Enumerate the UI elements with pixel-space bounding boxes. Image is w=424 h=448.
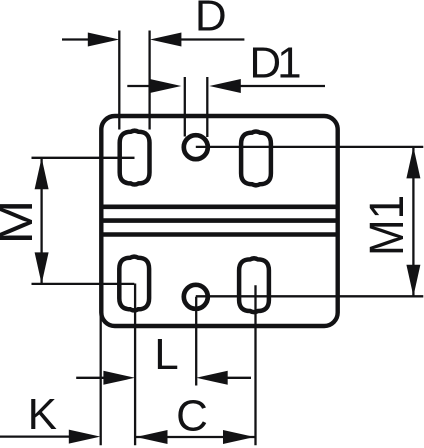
svg-text:C: C xyxy=(176,391,208,440)
dim M extension line top xyxy=(32,157,135,159)
slot top-left xyxy=(120,131,150,185)
hole circle top xyxy=(184,135,208,159)
extension line hole bottom center down xyxy=(195,297,197,386)
dim D1 line right tail xyxy=(240,85,325,87)
dim K line xyxy=(0,435,70,437)
groove line lower xyxy=(101,232,337,237)
extension line slot BR center down xyxy=(254,285,256,445)
svg-text:K: K xyxy=(28,390,57,439)
arrow L right (points left) xyxy=(196,371,228,385)
arrow M top (points up) xyxy=(35,158,49,190)
svg-text:L: L xyxy=(154,330,178,379)
dim D extension line left xyxy=(118,31,120,130)
arrow L left (points right) xyxy=(103,371,134,385)
slot bottom-left xyxy=(119,257,149,311)
extension line slot BL center down xyxy=(134,284,136,446)
dim D1 extension line left xyxy=(184,77,186,137)
dim C line xyxy=(136,436,255,438)
dim M extension line bottom xyxy=(32,283,135,285)
arrow K (points right) xyxy=(69,430,101,444)
arrow D1 right (points left) xyxy=(209,79,241,93)
slot bottom-right xyxy=(239,258,269,312)
dim D1 extension line right xyxy=(206,77,208,137)
arrow M bottom (points down) xyxy=(35,252,49,284)
groove line upper xyxy=(101,205,337,210)
body plate outline xyxy=(101,116,337,326)
dim D1 line left tail xyxy=(127,85,150,87)
dim D line left tail xyxy=(62,38,89,40)
dim L line left tail xyxy=(76,377,104,379)
dim M1 line xyxy=(412,148,414,296)
dim D line right tail xyxy=(181,38,245,40)
arrow D right (points left) xyxy=(150,33,182,47)
slot top-right xyxy=(241,132,271,186)
svg-text:M: M xyxy=(0,200,42,245)
dim M1 extension line bottom xyxy=(196,295,423,297)
svg-text:D: D xyxy=(195,0,227,41)
dim M1 extension line top xyxy=(196,146,423,148)
arrow C right (points right) xyxy=(223,430,255,444)
dim L line right tail xyxy=(227,377,251,379)
arrow D left (points right) xyxy=(88,33,120,47)
arrow D1 left (points right) xyxy=(150,79,182,93)
hole circle bottom xyxy=(184,285,208,309)
dim M line xyxy=(40,159,42,284)
arrow C left (points left) xyxy=(136,430,168,444)
groove line middle xyxy=(101,218,337,223)
svg-text:D1: D1 xyxy=(249,39,301,88)
svg-text:M1: M1 xyxy=(359,195,413,256)
arrow M1 bottom (points down) xyxy=(406,265,420,297)
arrow M1 top (points up) xyxy=(406,147,420,179)
extension line body left edge down xyxy=(100,313,102,445)
dim D extension line right xyxy=(148,31,150,130)
